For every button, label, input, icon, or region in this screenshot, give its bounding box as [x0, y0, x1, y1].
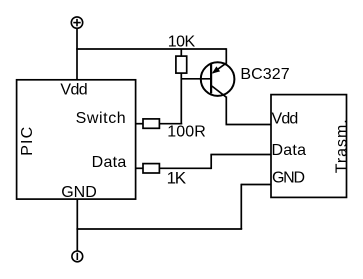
wire: PIC GND down to ground symbol — [76, 199, 78, 251]
svg-text:Trasm.: Trasm. — [334, 119, 351, 173]
wire: rail stub down to resistor 10K top — [180, 49, 182, 56]
wire: bottom rail — [76, 228, 242, 230]
resistor R3 1K (horizontal) — [143, 164, 159, 173]
svg-text:PIC: PIC — [19, 127, 36, 156]
transistor Q1 BC327 (PNP) — [201, 62, 235, 97]
wire: power symbol to PIC Vdd pin — [76, 28, 78, 79]
wire: 100R to base column junction — [159, 123, 182, 125]
svg-text:BC327: BC327 — [240, 66, 289, 83]
transistor body circle — [201, 62, 235, 96]
wire: collector to Trasm Vdd pin — [226, 124, 272, 126]
wire: data riser up — [210, 155, 212, 170]
base bar — [210, 64, 212, 94]
wire: collector down — [225, 97, 227, 125]
svg-text:GND: GND — [272, 169, 305, 186]
svg-text:Data: Data — [92, 154, 127, 171]
wire: Trasm GND pin — [241, 184, 271, 186]
svg-text:GND: GND — [61, 184, 97, 201]
resistor R1 10K (vertical) — [176, 56, 187, 73]
collector diagonal — [212, 86, 227, 97]
svg-text:Data: Data — [272, 142, 307, 159]
wire: PIC switch pin to resistor 100R — [136, 123, 144, 125]
emitter diagonal — [213, 63, 227, 73]
wire: top rail from power wire to transistor emitter column — [76, 48, 226, 50]
wire: data line into Trasm — [210, 154, 271, 156]
wire: emitter column from rail down to transistor — [225, 48, 227, 63]
power symbol + (circle with plus) — [71, 17, 82, 28]
svg-text:10K: 10K — [168, 33, 196, 50]
emitter arrow (points to base) — [212, 66, 220, 73]
svg-text:Vdd: Vdd — [272, 110, 299, 127]
ground symbol (circle with bar) — [72, 251, 83, 262]
IC U1 PIC box — [17, 80, 136, 199]
wire: 10K bottom down to switch line junction — [180, 73, 182, 124]
svg-text:Switch: Switch — [76, 110, 126, 127]
svg-text:1K: 1K — [167, 169, 187, 188]
resistor R2 100R (horizontal) — [143, 119, 159, 128]
IC U2 Trasm box — [271, 95, 347, 198]
svg-text:Vdd: Vdd — [60, 81, 87, 98]
svg-text:100R: 100R — [167, 124, 206, 141]
wire: base wire to transistor — [181, 78, 211, 80]
wire: GND riser down — [240, 184, 242, 229]
wire: PIC data pin to resistor 1K — [136, 167, 144, 169]
wire: 1K to data riser — [159, 167, 211, 169]
